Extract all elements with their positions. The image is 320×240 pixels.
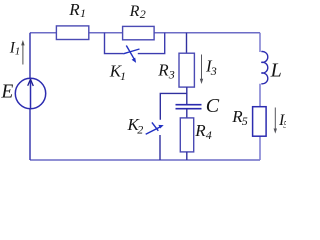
wire K1 branch right (138, 33, 165, 54)
wire K2 bottom (159, 135, 161, 160)
wire R4 bottom (186, 152, 188, 160)
svg-text:R: R (194, 121, 206, 140)
svg-text:R: R (157, 60, 169, 79)
switch K1 arrow (126, 46, 134, 60)
wire top horizontal (30, 32, 260, 34)
wire K1 branch left (105, 33, 124, 54)
svg-text:5: 5 (283, 119, 286, 131)
switch K2 blade (152, 122, 158, 130)
current I1 arrow (22, 43, 24, 65)
svg-text:3: 3 (168, 67, 175, 81)
resistor R4 (180, 118, 193, 152)
svg-text:1: 1 (120, 69, 126, 83)
wire R3 branch top (186, 33, 188, 53)
wire right vertical lower (259, 84, 261, 160)
current I3 arrow (201, 55, 203, 82)
source E arrowhead (28, 79, 34, 86)
wire R3 to C (186, 87, 188, 104)
inductor L (261, 51, 267, 83)
wire C to R4 (186, 109, 188, 118)
resistor R3 (179, 53, 194, 87)
svg-text:2: 2 (140, 7, 146, 21)
svg-text:E: E (0, 82, 13, 103)
svg-text:1: 1 (80, 6, 86, 20)
wire T junction to K2 (160, 93, 187, 119)
capacitor C (176, 105, 202, 109)
svg-text:R: R (68, 0, 80, 19)
wire bottom horizontal (30, 159, 260, 161)
wire left vertical (29, 33, 31, 160)
svg-text:5: 5 (242, 114, 248, 128)
svg-text:1: 1 (15, 45, 20, 57)
source E circle (15, 78, 45, 108)
source E arrow shaft (30, 78, 32, 108)
resistor R1 (56, 26, 88, 40)
svg-text:L: L (270, 59, 282, 81)
svg-text:R: R (129, 3, 140, 20)
switch K2 arrow (146, 127, 161, 135)
svg-text:4: 4 (206, 128, 212, 142)
switch K1 blade (123, 49, 139, 54)
svg-text:2: 2 (137, 122, 143, 136)
resistor R5 (253, 107, 267, 137)
resistor R2 (123, 26, 155, 39)
svg-text:3: 3 (210, 64, 217, 78)
wire right vertical upper (259, 33, 261, 52)
svg-text:C: C (206, 95, 220, 117)
current I5 arrow (274, 108, 276, 132)
